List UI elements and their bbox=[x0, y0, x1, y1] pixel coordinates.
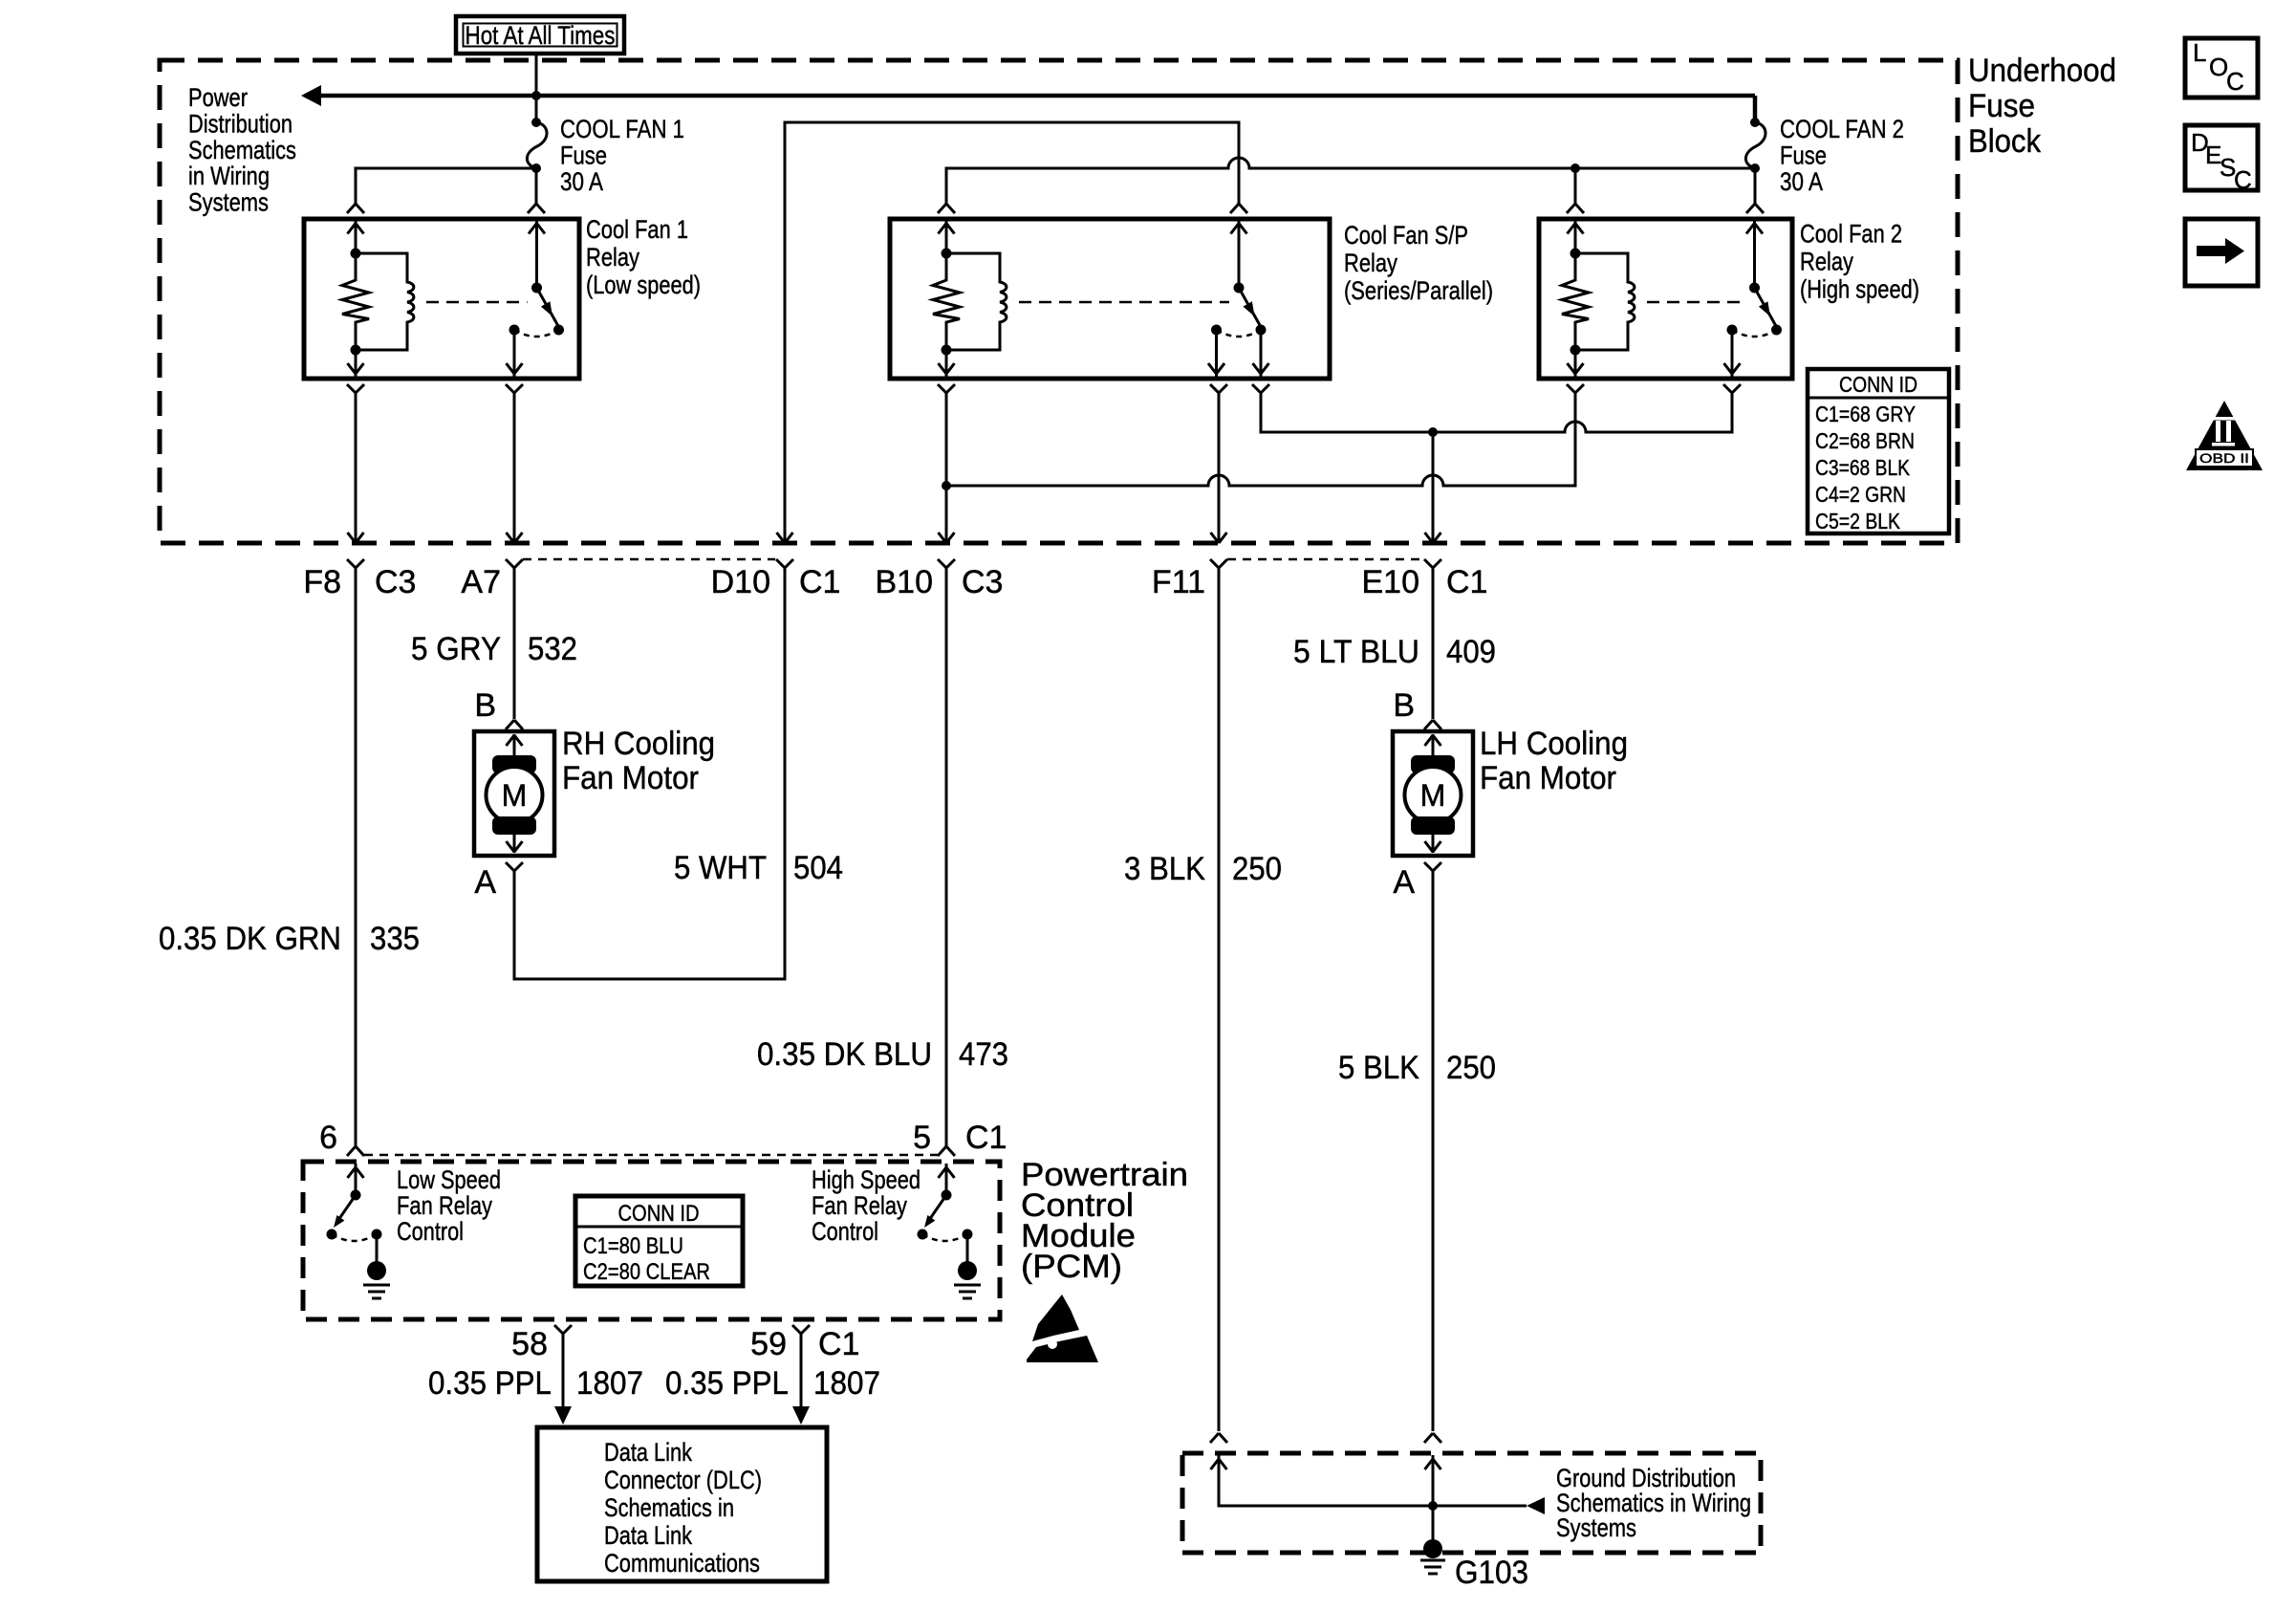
wire relay2 NC contact to E10 junction bbox=[1252, 384, 1269, 393]
K2 Cool Fan S/P coil-branch pin (top) bbox=[945, 221, 948, 253]
svg-text:COOL FAN 2: COOL FAN 2 bbox=[1780, 115, 1904, 143]
terminal A LH bbox=[1424, 862, 1441, 871]
RH cooling fan lower brush bbox=[492, 816, 536, 835]
svg-text:Block: Block bbox=[1968, 123, 2042, 160]
svg-text:5 GRY: 5 GRY bbox=[411, 631, 501, 667]
wire corner to COOL FAN 2 fuse bbox=[1753, 96, 1758, 122]
svg-text:C: C bbox=[2226, 67, 2244, 96]
svg-text:OBD II: OBD II bbox=[2199, 450, 2249, 466]
svg-text:59: 59 bbox=[750, 1326, 787, 1362]
wire 504 5 WHT RH motor A to D10 bbox=[514, 568, 785, 979]
connector forks above relay3 bbox=[1567, 204, 1584, 213]
K3 Cool Fan 2 switch pivot dot bbox=[1749, 283, 1760, 294]
svg-text:(Series/Parallel): (Series/Parallel) bbox=[1344, 276, 1493, 305]
wire 532 5 GRY A7 to RH motor B bbox=[513, 568, 516, 719]
K1 Cool Fan 1 switch arm bbox=[537, 288, 559, 326]
svg-text:Connector (DLC): Connector (DLC) bbox=[604, 1466, 762, 1494]
K3 Cool Fan 2 switch common pin bbox=[1753, 221, 1756, 288]
wire D10 riser to relay2 switch bbox=[785, 122, 1239, 543]
wire relay3 coil feed stub bbox=[1574, 168, 1577, 204]
svg-text:Relay: Relay bbox=[586, 243, 639, 272]
svg-text:Schematics: Schematics bbox=[188, 136, 296, 164]
wire D10 exit arrow bbox=[777, 533, 793, 543]
fuse F2 COOL FAN 2 bbox=[1750, 118, 1760, 127]
svg-text:Hot At All Times: Hot At All Times bbox=[466, 21, 616, 50]
svg-text:Fan Motor: Fan Motor bbox=[1480, 760, 1616, 796]
svg-text:High Speed: High Speed bbox=[812, 1165, 921, 1194]
svg-text:Relay: Relay bbox=[1344, 249, 1397, 277]
coil (inductor) K3 Cool Fan 2 bbox=[1575, 253, 1635, 350]
svg-text:LH Cooling: LH Cooling bbox=[1480, 726, 1628, 762]
K3 Cool Fan 2 switch arm bbox=[1755, 288, 1777, 326]
svg-text:250: 250 bbox=[1446, 1050, 1496, 1086]
svg-text:Communications: Communications bbox=[604, 1549, 760, 1577]
svg-text:C3: C3 bbox=[962, 564, 1003, 600]
coil (inductor) K2 Cool Fan S/P bbox=[946, 253, 1007, 350]
wire 473 0.35 DK BLU B10 to PCM pin 5 bbox=[945, 568, 948, 1146]
K2 Cool Fan S/P switch contact dots bbox=[1211, 325, 1222, 336]
svg-text:6: 6 bbox=[319, 1120, 337, 1156]
K3 Cool Fan 2 NO contact pin (bottom) bbox=[1731, 330, 1734, 377]
svg-text:0.35 PPL: 0.35 PPL bbox=[665, 1365, 789, 1402]
svg-text:Power: Power bbox=[188, 83, 248, 112]
wire 1807 0.35 PPL pin 59 to DLC bbox=[800, 1334, 803, 1407]
wire relay2 coil out to B10 bbox=[938, 384, 955, 393]
connector forks above relay1 bbox=[347, 204, 364, 213]
wire motor ground leg inside box bbox=[1432, 1455, 1435, 1506]
PCM pin 58 bbox=[554, 1325, 572, 1334]
motor box RH cooling fan bbox=[474, 731, 554, 856]
relay box K3 Cool Fan 2 bbox=[1539, 219, 1792, 379]
wire fuse2 bus to relay2 and relay3 coils bbox=[946, 158, 1755, 204]
svg-text:335: 335 bbox=[370, 921, 420, 957]
connector forks above relay2 bbox=[938, 204, 955, 213]
svg-text:5 BLK: 5 BLK bbox=[1338, 1050, 1419, 1086]
node bus/hot junction dot bbox=[531, 91, 541, 100]
in-line connector dashed tie PCM C1 bbox=[364, 1154, 938, 1157]
OBD II symbol bbox=[2186, 401, 2263, 470]
svg-text:C1=80 BLU: C1=80 BLU bbox=[583, 1233, 683, 1259]
Powertrain Control Module dashed boundary bbox=[303, 1162, 1000, 1319]
K1 Cool Fan 1 NO contact pin (bottom) bbox=[513, 330, 516, 377]
svg-text:409: 409 bbox=[1446, 634, 1496, 670]
wire B10 junction to relay3 coil (with hops) bbox=[946, 393, 1575, 486]
svg-text:C1: C1 bbox=[818, 1326, 859, 1362]
CONN ID table (PCM) bbox=[575, 1196, 743, 1286]
svg-text:Relay: Relay bbox=[1800, 248, 1853, 276]
svg-text:C4=2 GRN: C4=2 GRN bbox=[1815, 482, 1906, 507]
svg-text:M: M bbox=[1420, 778, 1446, 813]
resistor K2 Cool Fan S/P (coil suppression) bbox=[933, 253, 960, 350]
svg-text:CONN ID: CONN ID bbox=[1839, 372, 1917, 397]
K2 Cool Fan S/P switch travel dashed arc bbox=[1217, 330, 1262, 337]
wire E10 drop bbox=[1432, 432, 1435, 541]
K2 Cool Fan S/P coil junction dot (bottom) bbox=[942, 345, 952, 356]
svg-text:C2=80 CLEAR: C2=80 CLEAR bbox=[583, 1259, 710, 1285]
svg-text:G103: G103 bbox=[1455, 1555, 1528, 1591]
K2 Cool Fan S/P NC contact pin (bottom) bbox=[1260, 330, 1263, 377]
node E10 junction dot bbox=[1428, 427, 1438, 437]
K1 Cool Fan 1 coil-branch pin (bottom) bbox=[355, 350, 357, 377]
K2 Cool Fan S/P switch common pin bbox=[1238, 221, 1241, 288]
ESD sensitive device symbol bbox=[1032, 1295, 1079, 1341]
svg-text:F11: F11 bbox=[1152, 564, 1205, 600]
RH cooling fan terminal A lead (inside) bbox=[513, 834, 516, 853]
svg-text:A: A bbox=[474, 864, 496, 901]
node fuse2-bus/relay3-coil dot bbox=[1570, 163, 1580, 173]
wire down to G103 bbox=[1432, 1506, 1435, 1541]
PCM pin 59/C1 bbox=[792, 1325, 810, 1334]
svg-text:Systems: Systems bbox=[188, 188, 269, 217]
svg-text:Fuse: Fuse bbox=[560, 141, 607, 170]
svg-text:0.35 DK BLU: 0.35 DK BLU bbox=[757, 1036, 932, 1073]
connector F8/C3 bbox=[347, 559, 364, 568]
PCM pin 6 bbox=[347, 1146, 364, 1156]
svg-text:COOL FAN 1: COOL FAN 1 bbox=[560, 115, 684, 143]
svg-text:504: 504 bbox=[793, 850, 843, 886]
svg-text:(High speed): (High speed) bbox=[1800, 275, 1919, 304]
ground symbol PCM low speed driver bbox=[367, 1261, 386, 1280]
wire 1807 0.35 PPL pin 58 to DLC bbox=[562, 1334, 565, 1407]
connector F11 bbox=[1210, 559, 1227, 568]
relay box K2 Cool Fan S/P bbox=[890, 219, 1330, 379]
DESC icon box bbox=[2185, 125, 2258, 190]
connector D10/C1 bbox=[776, 559, 793, 568]
svg-text:473: 473 bbox=[959, 1036, 1008, 1073]
svg-text:Underhood: Underhood bbox=[1968, 53, 2116, 89]
next-page arrow icon box bbox=[2185, 219, 2258, 286]
low speed fan relay control driver bbox=[355, 1164, 357, 1195]
power feed label box "Hot At All Times" bbox=[456, 16, 624, 54]
resistor K1 Cool Fan 1 (coil suppression) bbox=[342, 253, 369, 350]
svg-text:Distribution: Distribution bbox=[188, 109, 292, 138]
svg-text:(PCM): (PCM) bbox=[1021, 1249, 1122, 1285]
svg-text:58: 58 bbox=[511, 1326, 548, 1362]
svg-text:A7: A7 bbox=[461, 564, 501, 600]
wire 335 0.35 DK GRN F8 to PCM pin 6 bbox=[355, 568, 357, 1146]
svg-text:250: 250 bbox=[1232, 851, 1282, 887]
wire relay1 switch out to A7 bbox=[506, 384, 523, 393]
svg-text:C5=2 BLK: C5=2 BLK bbox=[1815, 509, 1901, 533]
K3 Cool Fan 2 switch travel dashed arc bbox=[1732, 330, 1777, 337]
svg-text:1807: 1807 bbox=[576, 1365, 643, 1402]
K1 Cool Fan 1 switch travel dashed arc bbox=[514, 330, 559, 337]
svg-text:F8: F8 bbox=[303, 564, 341, 600]
svg-text:in Wiring: in Wiring bbox=[188, 162, 270, 190]
wire 409 5 LT BLU E10 to LH motor B bbox=[1432, 568, 1435, 719]
svg-text:Cool Fan 1: Cool Fan 1 bbox=[586, 215, 688, 244]
PCM pin 5/C1 bbox=[938, 1146, 955, 1156]
svg-text:B: B bbox=[474, 687, 496, 724]
wire F11 ground leg inside box bbox=[1219, 1455, 1433, 1506]
svg-text:Fuse: Fuse bbox=[1780, 141, 1827, 170]
svg-text:Fuse: Fuse bbox=[1968, 88, 2035, 124]
ground G103 symbol bbox=[1423, 1539, 1442, 1558]
connector into ground box (motor ground wire) bbox=[1424, 1433, 1441, 1443]
svg-text:Control: Control bbox=[397, 1217, 464, 1246]
motor symbol M LH cooling fan bbox=[1405, 767, 1462, 823]
svg-text:L: L bbox=[2193, 38, 2206, 67]
K3 Cool Fan 2 coil junction dot (top) bbox=[1570, 249, 1581, 259]
connector A7 bbox=[506, 559, 523, 568]
wire relay1 coil out to F8 bbox=[347, 384, 364, 393]
svg-text:B: B bbox=[1393, 687, 1415, 724]
svg-text:30 A: 30 A bbox=[560, 167, 603, 196]
K3 Cool Fan 2 coil-branch pin (bottom) bbox=[1574, 350, 1577, 377]
K1 Cool Fan 1 switch pivot dot bbox=[531, 283, 542, 294]
motor symbol M RH cooling fan bbox=[487, 767, 543, 823]
LH cooling fan terminal B lead (inside) bbox=[1432, 734, 1435, 757]
K1 Cool Fan 1 coil-to-switch dashed link bbox=[426, 301, 528, 304]
relay box K1 Cool Fan 1 bbox=[304, 219, 579, 379]
svg-text:A: A bbox=[1393, 864, 1415, 901]
svg-text:E10: E10 bbox=[1362, 564, 1420, 600]
svg-text:C2=68 BRN: C2=68 BRN bbox=[1815, 428, 1915, 453]
svg-text:C1: C1 bbox=[1446, 564, 1487, 600]
coil (inductor) K1 Cool Fan 1 bbox=[356, 253, 414, 350]
svg-text:Low Speed: Low Speed bbox=[397, 1165, 501, 1194]
RH cooling fan terminal B lead (inside) bbox=[513, 734, 516, 757]
svg-text:5 LT BLU: 5 LT BLU bbox=[1293, 634, 1419, 670]
svg-text:CONN ID: CONN ID bbox=[618, 1201, 700, 1227]
connector into ground box (F11 wire) bbox=[1210, 1433, 1227, 1443]
LH cooling fan lower brush bbox=[1411, 816, 1455, 835]
svg-text:Cool Fan 2: Cool Fan 2 bbox=[1800, 220, 1902, 249]
svg-text:Fan Motor: Fan Motor bbox=[562, 760, 699, 796]
svg-text:C1=68 GRY: C1=68 GRY bbox=[1815, 402, 1916, 426]
power distribution bus (thick) with left arrow bbox=[319, 94, 1755, 98]
svg-text:C3: C3 bbox=[375, 564, 416, 600]
LOC icon box bbox=[2185, 38, 2258, 98]
svg-text:Cool Fan S/P: Cool Fan S/P bbox=[1344, 221, 1468, 250]
K2 Cool Fan S/P NO contact pin (bottom) bbox=[1215, 330, 1218, 377]
svg-text:RH Cooling: RH Cooling bbox=[562, 726, 715, 762]
K2 Cool Fan S/P coil-to-switch dashed link bbox=[1019, 301, 1229, 304]
ground distribution dashed boundary bbox=[1182, 1453, 1761, 1553]
svg-text:Schematics in: Schematics in bbox=[604, 1493, 734, 1522]
motor box LH cooling fan bbox=[1393, 731, 1473, 856]
svg-text:(Low speed): (Low speed) bbox=[586, 271, 701, 299]
wire 250 3 BLK F11 to ground box bbox=[1218, 568, 1221, 1431]
svg-text:Data Link: Data Link bbox=[604, 1521, 692, 1550]
wire relay2 NO contact to F11 bbox=[1210, 384, 1227, 393]
K2 Cool Fan S/P switch pivot dot bbox=[1234, 283, 1245, 294]
svg-text:Data Link: Data Link bbox=[604, 1438, 692, 1467]
K3 Cool Fan 2 switch contact dots bbox=[1727, 325, 1738, 336]
svg-text:C3=68 BLK: C3=68 BLK bbox=[1815, 455, 1911, 480]
in-line connector dashed ties bbox=[523, 558, 775, 561]
ground symbol PCM high speed driver bbox=[958, 1261, 977, 1280]
LH cooling fan terminal A lead (inside) bbox=[1432, 834, 1435, 853]
Data Link Connector reference box bbox=[537, 1427, 827, 1581]
fuse F1 COOL FAN 1 bbox=[531, 118, 541, 127]
svg-text:C1: C1 bbox=[799, 564, 840, 600]
connector B10/C3 bbox=[938, 559, 955, 568]
RH cooling fan upper brush bbox=[492, 755, 536, 773]
wire to ground reference arrow bbox=[1433, 1505, 1527, 1508]
node ground junction dot bbox=[1428, 1501, 1438, 1511]
svg-text:3 BLK: 3 BLK bbox=[1124, 851, 1205, 887]
K1 Cool Fan 1 switch contact dots bbox=[509, 325, 520, 336]
wire fuse1 to relay1 switch feed bbox=[535, 168, 538, 204]
svg-text:30 A: 30 A bbox=[1780, 167, 1823, 196]
wire from Hot At All Times into fuse block bbox=[535, 54, 538, 122]
K2 Cool Fan S/P coil junction dot (top) bbox=[942, 249, 952, 259]
wire fuse2 to relay3 switch feed bbox=[1754, 168, 1757, 204]
svg-text:M: M bbox=[502, 778, 528, 813]
wire fuse1 to relay1 coil feed bbox=[356, 168, 536, 204]
terminal A RH bbox=[506, 862, 523, 871]
svg-text:Fan Relay: Fan Relay bbox=[397, 1191, 492, 1220]
K2 Cool Fan S/P coil-branch pin (bottom) bbox=[945, 350, 948, 377]
resistor K3 Cool Fan 2 (coil suppression) bbox=[1562, 253, 1589, 350]
svg-text:5 WHT: 5 WHT bbox=[674, 850, 767, 886]
K1 Cool Fan 1 coil-branch pin (top) bbox=[355, 221, 357, 253]
K3 Cool Fan 2 coil junction dot (bottom) bbox=[1570, 345, 1581, 356]
svg-text:5: 5 bbox=[913, 1120, 931, 1156]
svg-text:1807: 1807 bbox=[813, 1365, 880, 1402]
svg-text:Fan Relay: Fan Relay bbox=[812, 1191, 907, 1220]
connector E10/C1 bbox=[1424, 559, 1441, 568]
wire 250 5 BLK LH motor A to ground box bbox=[1432, 871, 1435, 1431]
svg-text:C1: C1 bbox=[965, 1120, 1007, 1156]
K1 Cool Fan 1 switch common pin bbox=[535, 221, 538, 288]
svg-text:B10: B10 bbox=[876, 564, 934, 600]
CONN ID table (fuse block) bbox=[1808, 369, 1949, 533]
high speed fan relay control driver bbox=[945, 1164, 948, 1195]
svg-text:0.35 PPL: 0.35 PPL bbox=[428, 1365, 552, 1402]
K3 Cool Fan 2 coil-to-switch dashed link bbox=[1647, 301, 1745, 304]
svg-text:D10: D10 bbox=[711, 564, 770, 600]
K2 Cool Fan S/P switch arm bbox=[1239, 288, 1261, 326]
svg-text:C: C bbox=[2234, 165, 2252, 194]
svg-text:532: 532 bbox=[528, 631, 577, 667]
K1 Cool Fan 1 coil junction dot (top) bbox=[351, 249, 361, 259]
K1 Cool Fan 1 coil junction dot (bottom) bbox=[351, 345, 361, 356]
LH cooling fan upper brush bbox=[1411, 755, 1455, 773]
node B10/relay3-coil junction dot bbox=[942, 481, 951, 490]
svg-text:0.35 DK GRN: 0.35 DK GRN bbox=[159, 921, 341, 957]
svg-text:Control: Control bbox=[812, 1217, 878, 1246]
Underhood Fuse Block dashed boundary bbox=[160, 60, 1958, 543]
K3 Cool Fan 2 coil-branch pin (top) bbox=[1574, 221, 1577, 253]
low speed driver switch arm bbox=[336, 1195, 356, 1223]
svg-text:Systems: Systems bbox=[1556, 1513, 1636, 1542]
